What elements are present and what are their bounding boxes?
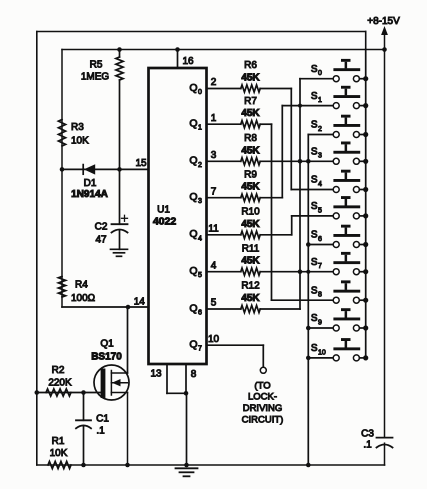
svg-text:8: 8 [191,369,197,380]
svg-text:R4: R4 [75,280,88,291]
svg-text:1: 1 [318,97,322,104]
svg-text:2: 2 [211,77,217,88]
svg-text:S: S [311,147,318,158]
svg-text:9: 9 [318,319,322,326]
svg-text:R7: R7 [244,96,257,107]
svg-text:2: 2 [318,126,322,133]
svg-text:C2: C2 [95,222,108,233]
svg-text:45K: 45K [241,256,260,267]
svg-text:0: 0 [198,89,202,96]
svg-text:6: 6 [318,236,322,243]
svg-text:R3: R3 [71,122,84,133]
svg-text:7: 7 [198,346,202,353]
svg-text:45K: 45K [241,293,260,304]
svg-text:.1: .1 [96,426,105,437]
svg-text:11: 11 [208,224,219,235]
svg-text:2: 2 [198,162,202,169]
svg-text:100Ω: 100Ω [71,293,96,304]
svg-text:U1: U1 [157,205,170,216]
svg-text:16: 16 [182,56,194,67]
svg-text:S: S [311,201,318,212]
svg-text:C3: C3 [361,429,374,440]
svg-text:220K: 220K [48,378,72,389]
svg-text:BS170: BS170 [91,352,122,363]
svg-text:3: 3 [318,153,322,160]
svg-text:S: S [311,313,318,324]
svg-text:10K: 10K [50,448,68,459]
svg-text:Q: Q [189,82,197,94]
svg-text:R11: R11 [242,243,260,254]
svg-text:1: 1 [211,113,217,124]
svg-text:R6: R6 [244,60,257,71]
svg-text:R8: R8 [244,133,257,144]
svg-text:R1: R1 [52,436,65,447]
svg-text:Q: Q [189,265,197,277]
svg-text:45K: 45K [241,108,260,119]
svg-text:6: 6 [198,310,202,317]
svg-text:1MEG: 1MEG [81,72,110,83]
svg-text:R12: R12 [241,281,260,292]
svg-text:5: 5 [211,298,217,309]
svg-text:S: S [311,285,318,296]
svg-text:S: S [311,257,318,268]
svg-text:Q: Q [189,339,197,351]
svg-text:4022: 4022 [153,216,177,228]
svg-text:C1: C1 [96,414,109,425]
svg-text:45K: 45K [241,145,260,156]
svg-text:Q: Q [189,155,197,167]
svg-text:5: 5 [198,272,202,279]
svg-text:S: S [311,91,318,102]
svg-text:4: 4 [198,235,202,242]
svg-text:14: 14 [134,297,146,308]
svg-text:4: 4 [211,260,217,271]
svg-text:47: 47 [95,235,107,246]
svg-text:S: S [311,230,318,241]
svg-text:13: 13 [150,369,162,380]
svg-text:4: 4 [318,181,322,188]
svg-text:45K: 45K [241,73,260,84]
svg-text:R2: R2 [52,365,65,376]
svg-text:7: 7 [318,263,322,270]
svg-text:S: S [311,120,318,131]
svg-text:1: 1 [198,125,202,132]
svg-text:S: S [311,343,318,354]
svg-text:D1: D1 [84,178,97,189]
svg-text:R9: R9 [244,169,257,180]
svg-text:10K: 10K [71,136,89,147]
svg-text:(TO: (TO [254,381,270,392]
svg-text:S: S [311,175,318,186]
svg-text:+8-15V: +8-15V [367,16,400,27]
svg-text:3: 3 [211,150,217,161]
svg-text:Q: Q [189,228,197,240]
svg-text:15: 15 [135,158,147,169]
svg-text:.1: .1 [363,440,372,451]
svg-text:45K: 45K [241,182,260,193]
svg-text:0: 0 [318,70,322,77]
svg-text:1N914A: 1N914A [71,189,108,200]
svg-text:10: 10 [208,334,220,345]
svg-text:R10: R10 [241,207,260,218]
svg-text:Q1: Q1 [100,339,114,350]
svg-text:Q: Q [189,191,197,203]
svg-text:R5: R5 [90,60,103,71]
svg-text:Q: Q [189,302,197,314]
svg-text:3: 3 [198,198,202,205]
svg-text:7: 7 [211,186,217,197]
svg-text:Q: Q [189,118,197,130]
svg-text:45K: 45K [241,219,260,230]
svg-text:8: 8 [318,292,322,299]
svg-text:DRIVING: DRIVING [243,403,283,414]
svg-text:S: S [311,64,318,75]
svg-text:5: 5 [318,207,322,214]
svg-text:10: 10 [318,349,326,356]
svg-text:LOCK-: LOCK- [248,392,277,403]
svg-text:CIRCUIT): CIRCUIT) [242,414,284,425]
